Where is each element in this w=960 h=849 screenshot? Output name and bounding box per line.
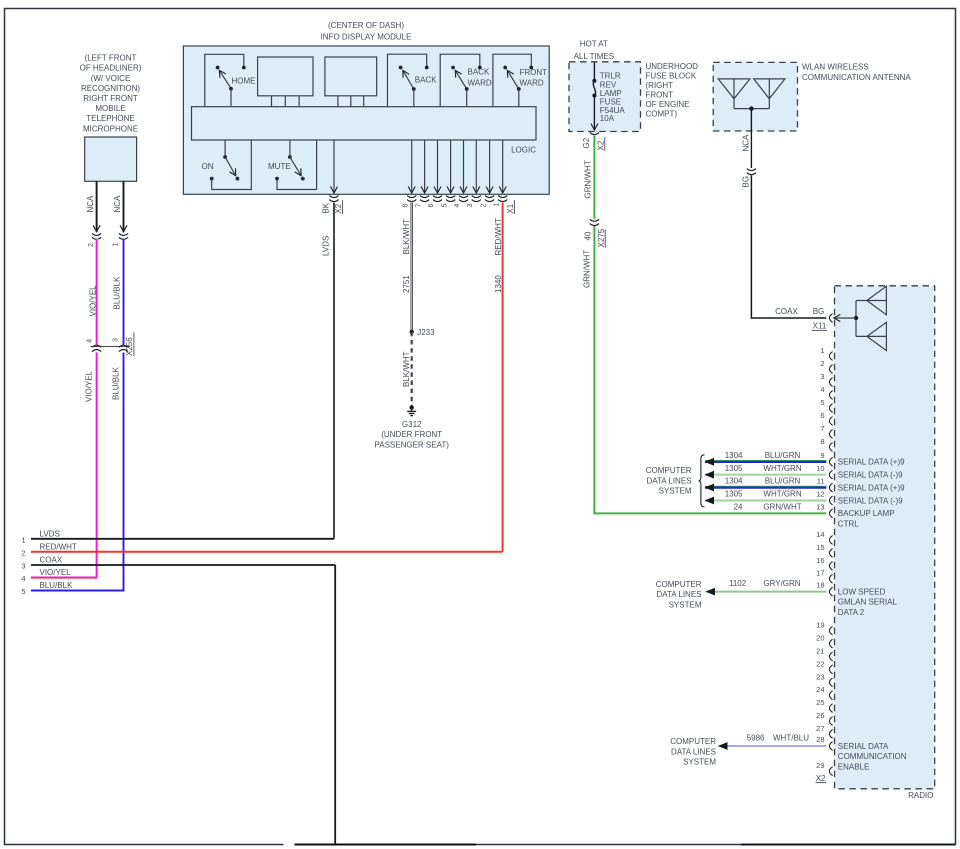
svg-text:LAMP: LAMP (600, 89, 622, 98)
svg-text:SYSTEM: SYSTEM (669, 600, 702, 609)
svg-text:1102: 1102 (729, 579, 747, 588)
svg-text:40: 40 (584, 231, 593, 240)
svg-text:1305: 1305 (725, 464, 743, 473)
svg-text:BG: BG (813, 307, 825, 316)
svg-text:NCA: NCA (86, 195, 95, 213)
svg-text:ALL TIMES: ALL TIMES (574, 52, 614, 61)
svg-text:(LEFT FRONT: (LEFT FRONT (85, 54, 137, 63)
svg-text:29: 29 (816, 761, 824, 770)
svg-text:BLU/BLK: BLU/BLK (111, 366, 120, 400)
svg-text:X11: X11 (813, 322, 827, 331)
svg-text:COMPT): COMPT) (646, 110, 678, 119)
svg-text:1: 1 (493, 203, 500, 207)
connector G2 / X2 (fuse block) (582, 133, 605, 151)
svg-text:BACKUP LAMP: BACKUP LAMP (838, 509, 895, 518)
wire VIO/YEL (lower) (97, 353, 98, 578)
switch ON (202, 140, 252, 190)
node line 2 RED/WHT (21, 542, 502, 557)
connector label X2 (radio) (816, 774, 827, 783)
svg-text:BLU/BLK: BLU/BLK (40, 581, 74, 590)
svg-text:FUSE BLOCK: FUSE BLOCK (646, 72, 697, 81)
svg-text:5986: 5986 (747, 734, 765, 743)
svg-text:LOW SPEED: LOW SPEED (838, 587, 886, 596)
svg-text:(CENTER OF DASH): (CENTER OF DASH) (328, 21, 404, 30)
radio pin function labels 9-13 (838, 458, 905, 529)
module output wire pin X2 (BK) (329, 140, 338, 202)
svg-text:SERIAL DATA: SERIAL DATA (838, 742, 889, 751)
wire NCA (left) (96, 181, 98, 232)
svg-text:20: 20 (816, 634, 824, 643)
logic bar (192, 107, 537, 155)
svg-text:8: 8 (402, 204, 409, 208)
module: INFO DISPLAY MODULE (183, 21, 549, 194)
svg-text:GMLAN SERIAL: GMLAN SERIAL (838, 598, 898, 607)
svg-text:5: 5 (21, 587, 25, 596)
svg-text:10: 10 (816, 464, 824, 473)
svg-text:COMPUTER: COMPUTER (670, 737, 716, 746)
wire 1304 BLU/GRN pin 9 (704, 451, 826, 466)
svg-text:SYSTEM: SYSTEM (659, 487, 692, 496)
radio: RADIO module box (835, 286, 935, 789)
power label HOT AT ALL TIMES (574, 40, 614, 61)
wire COAX vertical to page bottom (334, 565, 336, 844)
svg-text:1: 1 (21, 536, 25, 545)
svg-text:COMMUNICATION: COMMUNICATION (838, 752, 907, 761)
svg-text:5: 5 (820, 398, 824, 407)
svg-text:VIO/YEL: VIO/YEL (88, 285, 97, 317)
radio antenna bus and junction (834, 301, 858, 337)
svg-text:4: 4 (454, 204, 461, 208)
svg-text:X2: X2 (816, 774, 826, 783)
svg-text:SERIAL DATA (+)9: SERIAL DATA (+)9 (838, 483, 905, 492)
connector X275 / 40 (584, 219, 606, 248)
svg-text:WARD: WARD (520, 79, 544, 88)
svg-text:VIO/YEL: VIO/YEL (40, 568, 72, 577)
svg-text:2751: 2751 (402, 275, 411, 293)
svg-text:(UNDER FRONT: (UNDER FRONT (381, 430, 442, 439)
svg-text:LOGIC: LOGIC (511, 146, 536, 155)
connector label X2 (module) (334, 200, 343, 214)
wire NCA (right) (123, 181, 125, 232)
pin numbers 8-1 below module (402, 203, 500, 208)
svg-text:DATA 2: DATA 2 (838, 608, 865, 617)
svg-text:28: 28 (816, 735, 824, 744)
svg-text:X1: X1 (506, 203, 515, 213)
wire BLU/BLK (upper) (123, 239, 125, 345)
svg-text:BLU/BLK: BLU/BLK (112, 276, 121, 310)
svg-text:22: 22 (816, 659, 824, 668)
connector label X11 (812, 322, 827, 331)
svg-text:RED/WHT: RED/WHT (494, 218, 503, 255)
svg-text:24: 24 (734, 503, 743, 512)
svg-text:NCA: NCA (741, 134, 750, 152)
fuse F54UA: TRLR REV LAMP FUSE 10A (592, 63, 625, 131)
svg-text:2: 2 (480, 204, 487, 208)
radio pin function labels 18 (838, 587, 898, 617)
switch MUTE (268, 140, 317, 190)
radio pin numbers (816, 346, 824, 770)
svg-text:OF ENGINE: OF ENGINE (646, 100, 690, 109)
node line 4 VIO/YEL (21, 568, 97, 583)
svg-text:GRN/WHT: GRN/WHT (583, 160, 592, 198)
node COMPUTER DATA LINES SYSTEM (pin 28) (670, 737, 716, 767)
switch BACK (388, 54, 438, 106)
svg-text:TRLR: TRLR (600, 72, 621, 81)
svg-text:23: 23 (816, 672, 824, 681)
svg-text:DATA LINES: DATA LINES (656, 590, 701, 599)
svg-text:G312: G312 (402, 420, 422, 429)
connector X256 (87, 332, 134, 356)
svg-text:7: 7 (415, 204, 422, 208)
wire 1102 GRY/GRN pin 18 (705, 579, 826, 595)
svg-text:5: 5 (441, 204, 448, 208)
svg-text:3: 3 (467, 204, 474, 208)
svg-text:NCA: NCA (113, 195, 122, 213)
svg-text:17: 17 (816, 569, 824, 578)
svg-text:1340: 1340 (494, 275, 503, 293)
switch HOME (205, 54, 256, 106)
svg-text:26: 26 (816, 711, 824, 720)
svg-text:2: 2 (88, 243, 95, 247)
fuse block: UNDERHOOD FUSE BLOCK (569, 62, 641, 132)
svg-text:2: 2 (21, 549, 25, 558)
wire 1305 WHT/GRN pin 10 (704, 464, 826, 479)
wire COAX bottom overlay segment (294, 844, 476, 846)
svg-text:HOME: HOME (232, 77, 256, 86)
svg-text:FRONT: FRONT (520, 68, 548, 77)
connector pins 2/1 (mic) (88, 233, 128, 247)
svg-text:FRONT: FRONT (646, 91, 674, 100)
radio pin function labels 28 (838, 742, 907, 772)
svg-text:COMPUTER: COMPUTER (646, 466, 692, 475)
svg-text:BLK/WHT: BLK/WHT (402, 351, 411, 387)
antenna label (802, 63, 911, 82)
svg-text:RIGHT FRONT: RIGHT FRONT (83, 94, 138, 103)
svg-text:G2: G2 (582, 137, 591, 148)
svg-text:18: 18 (816, 581, 824, 590)
svg-text:LVDS: LVDS (322, 236, 331, 256)
brace computer data lines (699, 455, 705, 507)
svg-text:ENABLE: ENABLE (838, 762, 870, 771)
svg-text:WARD: WARD (468, 79, 492, 88)
wire BLK/WHT 2751 (411, 203, 413, 332)
svg-text:BK: BK (322, 202, 331, 213)
node line 3 COAX (21, 556, 335, 571)
connector label X1 (506, 200, 515, 214)
svg-text:RECOGNITION): RECOGNITION) (81, 84, 140, 93)
svg-text:SYSTEM: SYSTEM (683, 758, 716, 767)
node COMPUTER DATA LINES SYSTEM (pin 18) (656, 580, 702, 610)
microphone: RIGHT FRONT MOBILE TELEPHONE MICROPHONE (80, 54, 142, 182)
radio antenna element 2 (internal) (856, 322, 886, 350)
wire GRN/WHT (fuse to X275) (593, 135, 595, 219)
svg-text:BACK: BACK (415, 76, 437, 85)
wire VIO/YEL (upper) (97, 239, 98, 345)
antenna module: WLAN WIRELESS COMMUNICATION ANTENNA (713, 62, 797, 131)
svg-text:1304: 1304 (725, 477, 743, 486)
svg-text:GRN/WHT: GRN/WHT (582, 250, 591, 288)
svg-text:OF HEADLINER): OF HEADLINER) (80, 64, 142, 73)
svg-text:GRY/GRN: GRY/GRN (763, 579, 800, 588)
antenna element 1 (718, 79, 750, 109)
wire LVDS vertical (333, 203, 335, 539)
svg-text:X2: X2 (334, 203, 343, 213)
node line 1 LVDS (21, 529, 334, 544)
svg-text:9: 9 (820, 451, 824, 460)
svg-text:8: 8 (820, 437, 824, 446)
svg-text:25: 25 (816, 698, 824, 707)
svg-text:3: 3 (21, 562, 25, 571)
wire BLK/WHT dashed to ground (411, 332, 413, 406)
ground G312 (375, 405, 450, 449)
svg-text:14: 14 (816, 530, 824, 539)
antenna feed junction (734, 106, 769, 110)
radio antenna element 1 (internal) (856, 286, 886, 315)
splice J233 (410, 328, 436, 337)
svg-text:21: 21 (816, 647, 824, 656)
svg-text:10A: 10A (600, 114, 615, 123)
wire label 24 GRN/WHT pin 13 (734, 503, 802, 512)
svg-text:WHT/BLU: WHT/BLU (773, 734, 809, 743)
wire COAX BG (antenna to radio X11) (751, 175, 826, 318)
svg-text:DATA LINES: DATA LINES (646, 476, 691, 485)
svg-text:MOBILE: MOBILE (95, 104, 125, 113)
node line 5 BLU/BLK (21, 581, 124, 596)
svg-text:X275: X275 (597, 228, 606, 247)
fuse block location label (646, 62, 699, 119)
svg-text:27: 27 (816, 724, 824, 733)
svg-text:6: 6 (820, 411, 824, 420)
svg-text:RADIO: RADIO (908, 791, 933, 800)
svg-text:WLAN WIRELESS: WLAN WIRELESS (802, 63, 869, 72)
svg-text:1305: 1305 (725, 490, 743, 499)
svg-text:COMPUTER: COMPUTER (656, 580, 702, 589)
switch FRONTWARD (493, 54, 547, 106)
module output wires pins 8-1 (407, 140, 507, 202)
wire bottom-right overlay segment (741, 844, 955, 846)
svg-text:11: 11 (817, 477, 825, 486)
antenna element 2 (754, 79, 785, 109)
connector (antenna inline) (747, 169, 756, 175)
radio connector pin arcs 1-29 (829, 352, 832, 776)
svg-text:3: 3 (820, 372, 824, 381)
svg-text:BLU/GRN: BLU/GRN (765, 451, 801, 460)
svg-text:COMMUNICATION ANTENNA: COMMUNICATION ANTENNA (802, 73, 911, 82)
svg-text:SERIAL DATA (-)9: SERIAL DATA (-)9 (838, 496, 903, 505)
wire RED/WHT 1340 vertical (502, 203, 504, 552)
wire GRN/WHT 24 (X275 to radio pin 13) (594, 226, 826, 513)
svg-text:3: 3 (112, 338, 119, 342)
svg-text:BLK/WHT: BLK/WHT (402, 219, 411, 255)
svg-text:13: 13 (816, 503, 824, 512)
svg-text:COAX: COAX (40, 556, 63, 565)
display block 2 (325, 57, 377, 107)
svg-text:2: 2 (820, 359, 824, 368)
wire 1305 WHT/GRN pin 12 (704, 490, 826, 505)
svg-text:BLU/GRN: BLU/GRN (765, 477, 801, 486)
svg-text:4: 4 (87, 339, 94, 343)
svg-text:19: 19 (816, 621, 824, 630)
wire 5986 WHT/BLU pin 28 (718, 734, 826, 750)
svg-text:12: 12 (816, 490, 824, 499)
svg-text:1304: 1304 (725, 451, 743, 460)
svg-text:(RIGHT: (RIGHT (646, 81, 674, 90)
svg-text:BG: BG (741, 176, 750, 188)
display block 1 (258, 57, 313, 107)
svg-text:(W/ VOICE: (W/ VOICE (91, 74, 131, 83)
svg-text:1: 1 (113, 243, 120, 247)
svg-text:24: 24 (816, 685, 824, 694)
svg-text:X256: X256 (125, 337, 134, 356)
svg-text:X2: X2 (597, 140, 606, 150)
svg-text:LVDS: LVDS (40, 529, 60, 538)
svg-text:16: 16 (816, 556, 824, 565)
svg-text:DATA LINES: DATA LINES (671, 747, 716, 756)
svg-text:VIO/YEL: VIO/YEL (85, 370, 94, 402)
svg-text:MICROPHONE: MICROPHONE (83, 124, 138, 133)
svg-text:CTRL: CTRL (838, 520, 859, 529)
svg-text:SERIAL DATA (-)9: SERIAL DATA (-)9 (838, 471, 903, 480)
wire NCA (antenna) (750, 109, 752, 168)
node COMPUTER DATA LINES SYSTEM (pins 9-12) (646, 466, 692, 496)
svg-text:HOT AT: HOT AT (580, 40, 608, 49)
connector X11 arc (829, 314, 832, 323)
svg-text:6: 6 (428, 204, 435, 208)
svg-text:RED/WHT: RED/WHT (40, 542, 77, 551)
svg-text:ON: ON (202, 162, 214, 171)
svg-text:4: 4 (21, 574, 25, 583)
svg-text:BACK: BACK (468, 68, 490, 77)
svg-text:WHT/GRN: WHT/GRN (763, 464, 801, 473)
switch BACKWARD (440, 54, 492, 106)
svg-text:J233: J233 (417, 328, 435, 337)
svg-text:INFO DISPLAY MODULE: INFO DISPLAY MODULE (321, 32, 412, 41)
svg-text:GRN/WHT: GRN/WHT (763, 503, 801, 512)
svg-text:SERIAL DATA (+)9: SERIAL DATA (+)9 (838, 458, 905, 467)
wire 1304 BLU/GRN pin 11 (704, 477, 826, 492)
svg-text:4: 4 (820, 385, 824, 394)
svg-text:COAX: COAX (775, 307, 798, 316)
svg-text:UNDERHOOD: UNDERHOOD (646, 62, 699, 71)
svg-text:PASSENGER SEAT): PASSENGER SEAT) (375, 440, 450, 449)
svg-text:7: 7 (820, 424, 824, 433)
svg-text:TELEPHONE: TELEPHONE (86, 114, 134, 123)
svg-text:15: 15 (816, 543, 824, 552)
svg-text:MUTE: MUTE (268, 162, 291, 171)
svg-text:WHT/GRN: WHT/GRN (763, 490, 801, 499)
wire BLU/BLK (lower) (123, 353, 125, 591)
svg-text:1: 1 (820, 346, 824, 355)
